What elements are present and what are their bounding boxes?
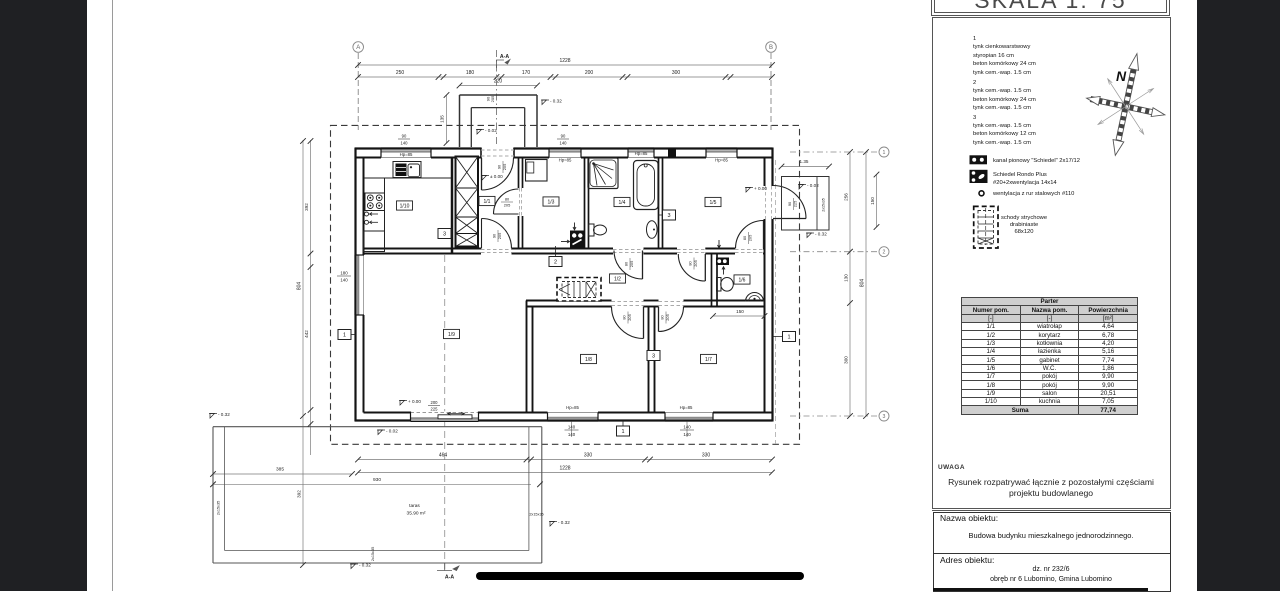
svg-text:170: 170 — [522, 70, 531, 76]
svg-text:80: 80 — [505, 197, 510, 202]
svg-text:135: 135 — [440, 115, 445, 123]
svg-text:205: 205 — [490, 95, 495, 102]
svg-text:- 0.32: - 0.32 — [218, 412, 230, 417]
svg-text:B: B — [769, 45, 773, 51]
svg-text:225: 225 — [792, 201, 797, 208]
svg-text:140: 140 — [683, 432, 691, 437]
svg-text:90: 90 — [402, 134, 407, 139]
svg-text:180: 180 — [340, 271, 348, 276]
svg-text:140: 140 — [683, 425, 691, 430]
svg-text:220: 220 — [494, 79, 503, 85]
svg-text:Hp=85: Hp=85 — [559, 158, 572, 163]
svg-text:1228: 1228 — [559, 58, 570, 64]
svg-text:300: 300 — [844, 356, 849, 364]
svg-text:90: 90 — [497, 164, 502, 169]
svg-text:80: 80 — [688, 261, 693, 266]
svg-text:1/3: 1/3 — [548, 199, 555, 205]
svg-text:90: 90 — [492, 233, 497, 238]
svg-text:Hp=85: Hp=85 — [680, 405, 693, 410]
svg-text:35.90 m²: 35.90 m² — [407, 511, 426, 517]
svg-text:330: 330 — [584, 453, 593, 459]
svg-text:180: 180 — [466, 70, 475, 76]
svg-text:80: 80 — [660, 315, 665, 320]
svg-text:442: 442 — [304, 330, 309, 338]
svg-text:A-A: A-A — [500, 54, 509, 60]
svg-text:1228: 1228 — [559, 466, 570, 472]
svg-text:205: 205 — [627, 314, 632, 321]
svg-text:± 0.00: ± 0.00 — [490, 174, 503, 179]
svg-text:150: 150 — [870, 197, 875, 205]
svg-text:1: 1 — [883, 150, 886, 156]
svg-text:- 0.32: - 0.32 — [815, 232, 827, 237]
svg-text:2x15x35: 2x15x35 — [371, 547, 375, 561]
svg-text:804: 804 — [860, 279, 866, 288]
svg-text:930: 930 — [373, 477, 381, 483]
svg-text:1/5: 1/5 — [710, 200, 717, 206]
svg-text:Hp=85: Hp=85 — [635, 151, 648, 156]
svg-text:80: 80 — [742, 235, 747, 240]
svg-text:300: 300 — [672, 70, 681, 76]
svg-text:1/7: 1/7 — [705, 357, 712, 363]
svg-text:Hp=85: Hp=85 — [400, 152, 413, 157]
svg-text:330: 330 — [702, 453, 711, 459]
svg-text:205: 205 — [629, 261, 634, 268]
svg-text:1/6: 1/6 — [739, 277, 746, 283]
svg-text:205: 205 — [665, 314, 670, 321]
svg-text:205: 205 — [693, 260, 698, 267]
svg-text:385: 385 — [276, 467, 284, 473]
svg-text:200: 200 — [431, 400, 439, 405]
svg-text:1/10: 1/10 — [400, 203, 410, 209]
svg-text:140: 140 — [401, 141, 409, 146]
svg-text:140: 140 — [340, 278, 348, 283]
svg-text:1/9: 1/9 — [448, 332, 455, 338]
svg-text:3: 3 — [883, 414, 886, 420]
svg-text:- 0.32: - 0.32 — [359, 563, 371, 568]
svg-text:2: 2 — [883, 250, 886, 256]
svg-text:140: 140 — [560, 141, 568, 146]
svg-text:1.35: 1.35 — [800, 159, 809, 164]
svg-text:1: 1 — [787, 335, 790, 341]
svg-text:205: 205 — [497, 233, 502, 240]
svg-text:- 0.32: - 0.32 — [558, 520, 570, 525]
svg-text:1/4: 1/4 — [619, 200, 626, 206]
svg-text:1/8: 1/8 — [585, 357, 592, 363]
svg-text:130: 130 — [844, 274, 849, 282]
svg-text:Hp=85: Hp=85 — [566, 405, 579, 410]
svg-text:392: 392 — [304, 203, 309, 211]
svg-text:3: 3 — [443, 232, 446, 238]
svg-text:3: 3 — [667, 213, 670, 219]
svg-text:A-A: A-A — [445, 575, 454, 581]
svg-text:- 0.02: - 0.02 — [386, 429, 398, 434]
svg-text:1: 1 — [343, 333, 346, 339]
svg-text:80: 80 — [624, 261, 629, 266]
svg-text:140: 140 — [568, 432, 576, 437]
svg-text:150: 150 — [736, 309, 744, 314]
svg-text:140: 140 — [568, 425, 576, 430]
svg-text:1/2: 1/2 — [614, 276, 621, 282]
svg-text:205: 205 — [502, 164, 507, 171]
svg-text:A: A — [356, 45, 360, 51]
svg-text:205: 205 — [504, 203, 511, 208]
svg-text:1/1: 1/1 — [484, 199, 491, 205]
svg-text:Hp=85: Hp=85 — [715, 158, 728, 163]
svg-text:3: 3 — [652, 354, 655, 360]
svg-text:2x15x35: 2x15x35 — [529, 513, 543, 517]
svg-text:2: 2 — [554, 260, 557, 266]
svg-text:200: 200 — [585, 70, 594, 76]
svg-text:80: 80 — [622, 315, 627, 320]
svg-text:205: 205 — [747, 235, 752, 242]
svg-text:2x15x35: 2x15x35 — [822, 198, 826, 212]
svg-text:256: 256 — [844, 193, 849, 201]
svg-text:1: 1 — [621, 429, 624, 435]
svg-text:- 0.02: - 0.02 — [807, 183, 819, 188]
svg-text:392: 392 — [297, 490, 302, 498]
svg-text:804: 804 — [297, 282, 303, 291]
svg-text:+ 0.00: + 0.00 — [408, 399, 421, 404]
svg-text:90: 90 — [787, 201, 792, 206]
svg-text:250: 250 — [396, 70, 405, 76]
svg-text:464: 464 — [439, 453, 448, 459]
svg-text:- 0.32: - 0.32 — [550, 99, 562, 104]
svg-text:+ 0.00: + 0.00 — [754, 186, 767, 191]
svg-text:90: 90 — [561, 134, 566, 139]
svg-text:taras: taras — [409, 503, 420, 509]
svg-text:2x15x35: 2x15x35 — [217, 501, 221, 515]
svg-text:225: 225 — [431, 406, 439, 411]
svg-text:- 0.02: - 0.02 — [485, 128, 497, 133]
